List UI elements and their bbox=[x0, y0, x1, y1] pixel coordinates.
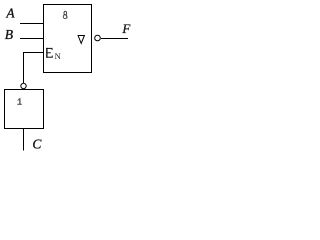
wire C bbox=[23, 129, 25, 151]
label 1 bbox=[17, 98, 22, 105]
wire B bbox=[20, 38, 44, 40]
svg-text:C: C bbox=[32, 137, 42, 152]
open-collector symbol nabla bbox=[78, 36, 84, 44]
wire F bbox=[101, 38, 128, 40]
AND gate U1 box bbox=[44, 5, 92, 73]
wire A bbox=[20, 23, 44, 25]
inverter output bubble bbox=[21, 83, 26, 88]
label & bbox=[63, 11, 67, 18]
wire EN bbox=[24, 53, 45, 84]
svg-text:B: B bbox=[5, 27, 13, 42]
svg-text:N: N bbox=[55, 51, 61, 61]
svg-text:F: F bbox=[121, 21, 131, 36]
svg-text:A: A bbox=[5, 6, 15, 21]
output inversion bubble bbox=[95, 35, 101, 41]
inverter U2 box bbox=[5, 90, 44, 129]
EN pin label E bbox=[46, 48, 53, 58]
